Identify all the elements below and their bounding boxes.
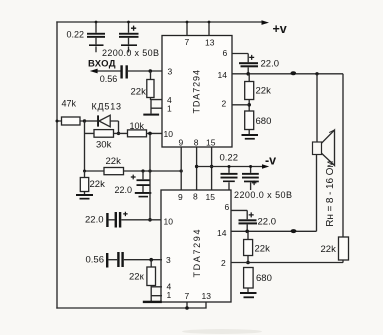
- svg-text:10k: 10k: [130, 121, 145, 131]
- svg-text:22.0: 22.0: [258, 217, 277, 228]
- ground (under 22.0 stby cap): [135, 192, 152, 197]
- op-amp U2 TDA7294 (bottom IC): [161, 190, 231, 302]
- resistor 22k (horizontal, on mute rail): [104, 168, 124, 175]
- svg-text:3: 3: [168, 67, 173, 77]
- wire U2 pins 4,1 bracket: [151, 287, 162, 296]
- svg-text:8: 8: [193, 192, 198, 202]
- resistor 22к (U2 input to gnd): [147, 260, 156, 301]
- junction dot (U2 pin7 to +V bottom wire): [185, 306, 189, 310]
- wire U2 output (pin 14): [231, 230, 317, 232]
- +v arrowhead: [262, 20, 270, 25]
- input arrow (left): [90, 69, 121, 74]
- svg-text:ВХОД: ВХОД: [88, 59, 116, 70]
- svg-text:0.22: 0.22: [67, 30, 85, 40]
- diode КД513: [85, 115, 121, 135]
- svg-text:3: 3: [166, 255, 171, 265]
- svg-text:TDA7294: TDA7294: [192, 70, 202, 114]
- junction dots on mute rail: [83, 170, 86, 173]
- wire node A vertical (47k/diode to 22k rail): [84, 121, 86, 171]
- wire mute/stby rail: [85, 170, 182, 172]
- svg-text:47k: 47k: [62, 98, 77, 108]
- svg-text:10: 10: [164, 129, 174, 139]
- capacitor 2200.0x50V (top, electrolytic): [119, 21, 139, 53]
- svg-text:7: 7: [185, 37, 190, 47]
- svg-text:22k: 22k: [256, 85, 272, 96]
- capacitor 22.0 (U2 pin6 bootstrap): [231, 210, 257, 231]
- capacitor 22.0 (U1 pin6 bootstrap): [232, 54, 258, 74]
- svg-text:2: 2: [222, 99, 227, 109]
- svg-text:22к: 22к: [129, 271, 145, 282]
- svg-text:22k: 22k: [321, 244, 337, 255]
- speaker: [313, 130, 335, 166]
- svg-text:0.22: 0.22: [220, 153, 239, 164]
- svg-text:2200.0 x 50В: 2200.0 x 50В: [234, 190, 292, 200]
- wire left border (+V): [56, 22, 58, 308]
- -v arrowhead: [262, 164, 269, 169]
- resistor 30k: [85, 130, 119, 138]
- wire bottom (+V to IC2 pins 7,13): [57, 302, 206, 308]
- svg-text:0.56: 0.56: [86, 255, 105, 266]
- wire +V top rail: [57, 21, 263, 23]
- resistor 680 (U2): [244, 268, 254, 293]
- capacitor 0.22 (top left, on +V rail): [87, 21, 105, 53]
- svg-text:22.0: 22.0: [85, 215, 104, 226]
- svg-text:Rн = 8 - 16 Ом: Rн = 8 - 16 Ом: [325, 161, 336, 227]
- svg-text:22k: 22k: [131, 86, 147, 97]
- capacitor 0.22 (-V rail): [221, 165, 238, 190]
- ground (U2 680): [240, 292, 257, 298]
- svg-text:2200.0 x 50В: 2200.0 x 50В: [102, 48, 159, 58]
- wire U1 pin13 lead: [208, 22, 210, 36]
- resistor 680 (U1): [245, 111, 254, 134]
- wire IC1 pins 4,1 bracket: [151, 100, 162, 114]
- svg-text:22k: 22k: [106, 156, 122, 167]
- svg-text:22k: 22k: [90, 179, 106, 190]
- svg-text:1: 1: [167, 104, 172, 114]
- svg-text:22.0: 22.0: [115, 185, 133, 195]
- resistor 22k (U2 feedback): [244, 231, 253, 264]
- svg-text:-v: -v: [265, 154, 276, 168]
- svg-text:КД513: КД513: [92, 101, 122, 111]
- svg-text:13: 13: [202, 291, 212, 301]
- svg-text:6: 6: [225, 202, 230, 212]
- op-amp U1 TDA7294 (top IC): [162, 36, 232, 148]
- wire U1 output to bridge 22k (right side): [342, 74, 344, 237]
- wire U1 output (pin 14): [232, 73, 343, 75]
- wire mute vertical (IC1 pin10 to IC2 pin10): [149, 133, 151, 219]
- wire U1 pin15 to U2 pin15: [211, 147, 213, 190]
- capacitor 0.56 (U2 input): [106, 252, 162, 268]
- pin labels U2: [164, 192, 230, 301]
- capacitor 0.56 (input coupling): [120, 65, 162, 78]
- scan smudge bottom: [182, 329, 262, 334]
- wire U1 pin8 to U2 pin8: [196, 147, 198, 190]
- svg-text:9: 9: [179, 138, 184, 148]
- svg-text:22.0: 22.0: [261, 58, 280, 69]
- ground (under 22k node A): [76, 194, 93, 200]
- svg-text:0.56: 0.56: [100, 74, 118, 84]
- svg-text:30k: 30k: [96, 139, 112, 150]
- svg-text:13: 13: [205, 37, 215, 47]
- wire U1 pin9 to U2 pin9: [180, 147, 182, 190]
- svg-text:15: 15: [206, 192, 216, 202]
- resistor 22k (vertical, to gnd under node A): [80, 171, 88, 194]
- resistor 22k (U1 feedback): [245, 74, 254, 111]
- svg-text:10: 10: [164, 216, 174, 226]
- resistor 47k: [56, 117, 87, 125]
- svg-text:9: 9: [178, 192, 183, 202]
- svg-text:680: 680: [256, 116, 272, 127]
- ground (IC1 pins 4/1): [143, 114, 159, 116]
- wire -V rail: [197, 166, 263, 168]
- wire U1 pin2 lead: [232, 104, 249, 106]
- svg-text:+v: +v: [273, 22, 287, 36]
- svg-text:15: 15: [206, 138, 216, 148]
- svg-text:1: 1: [167, 290, 172, 300]
- ground (U1 680): [242, 134, 259, 140]
- wire speaker top lead: [316, 74, 318, 142]
- capacitor 22.0 (stby timing, vertical): [131, 171, 150, 192]
- svg-text:14: 14: [217, 228, 227, 238]
- wire U2 pin2 to bridge 22k: [231, 262, 343, 264]
- svg-text:14: 14: [218, 70, 228, 80]
- pin labels U1: [164, 37, 228, 148]
- resistor 22k (bridge, right): [339, 237, 349, 263]
- svg-text:2: 2: [221, 258, 226, 268]
- wire speaker bottom lead: [316, 155, 318, 232]
- capacitor 2200.0x50V (-V rail, electrolytic): [242, 165, 259, 190]
- svg-text:680: 680: [256, 273, 272, 284]
- wire U1 pin7 lead: [186, 22, 188, 36]
- svg-text:6: 6: [223, 48, 228, 58]
- capacitor 22.0 (U2 pin10 mute): [106, 212, 161, 228]
- svg-text:22k: 22k: [255, 244, 271, 255]
- svg-text:7: 7: [185, 291, 190, 301]
- ground (U2 pins 4/1): [143, 301, 162, 303]
- svg-text:8: 8: [194, 138, 199, 148]
- svg-text:TDA7294: TDA7294: [192, 230, 202, 278]
- resistor 10k: [119, 130, 163, 137]
- resistor 22k (input to gnd, IC1 pins 4/1): [147, 71, 154, 100]
